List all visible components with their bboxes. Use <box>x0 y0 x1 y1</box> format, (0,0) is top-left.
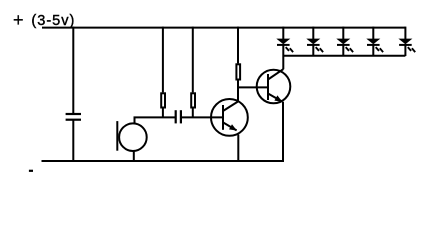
transistor Q1 collector stroke <box>223 102 238 111</box>
wire: C2 to Q1 base <box>181 116 223 118</box>
capacitor C1 top plate <box>66 113 81 115</box>
LED D5 triangle <box>398 39 412 45</box>
resistor R1 body <box>161 93 165 107</box>
LED D2 light arrows <box>316 47 319 51</box>
resistor R3 lead top <box>237 27 239 64</box>
LED D4 cathode bar <box>367 44 380 46</box>
LED D2 triangle <box>306 39 320 45</box>
LED D4 triangle <box>366 39 380 45</box>
microphone M1 body <box>119 123 147 151</box>
LED D4 cathode wire <box>372 45 374 56</box>
transistor Q1 base bar <box>222 105 224 130</box>
LED D5 cathode bar <box>399 44 412 46</box>
LED D3 anode wire <box>342 27 344 39</box>
LED D3 triangle <box>336 39 350 45</box>
LED D5 anode wire <box>404 27 406 39</box>
resistor R2 lead top <box>192 27 194 93</box>
LED D5 <box>398 27 415 56</box>
resistor R2 body <box>191 93 195 107</box>
LED D4 anode wire <box>372 27 374 39</box>
LED D4 <box>366 27 383 56</box>
resistor R3 body <box>236 64 240 79</box>
LED D1 anode wire <box>282 27 284 39</box>
LED D2 cathode bar <box>307 44 320 46</box>
capacitor C1 bottom plate <box>66 119 81 121</box>
wire: V+ rail down to C1 <box>72 27 74 114</box>
LED D5 light arrows <box>408 47 411 51</box>
transistor Q2 emitter arrow <box>274 95 282 101</box>
LED D3 cathode bar <box>337 44 350 46</box>
V+ rail (top wire) <box>42 27 405 29</box>
LED D3 light arrows <box>346 47 349 51</box>
transistor Q1 emitter arrow <box>229 124 237 130</box>
transistor Q1 body <box>211 99 248 136</box>
wire: Q1 emitter to negative rail <box>237 135 239 163</box>
capacitor C2 right plate <box>180 110 182 123</box>
resistor R1 lead bottom <box>162 109 164 118</box>
wire: R3 to Q1 collector node <box>237 80 239 102</box>
LED D2 anode wire <box>312 27 314 39</box>
LED D1 light arrows <box>286 47 289 51</box>
transistor Q2 base bar <box>267 74 269 100</box>
LED cathode bus <box>283 55 405 57</box>
negative rail (bottom wire) <box>42 160 284 162</box>
LED D1 <box>276 27 293 52</box>
LED D4 light arrows <box>376 47 379 51</box>
supply label - <box>29 170 33 172</box>
wire: node to Q2 base <box>237 86 269 88</box>
LED D1 triangle <box>276 39 290 45</box>
resistor R1 lead top <box>162 27 164 93</box>
wire: LED1 cathode to Q2 collector <box>282 45 284 69</box>
wire: Q2 emitter to negative rail <box>282 102 284 162</box>
LED D1 cathode bar <box>277 44 290 46</box>
transistor Q1 emitter stroke <box>223 122 237 130</box>
LED D3 cathode wire <box>342 45 344 56</box>
LED D5 cathode wire <box>404 45 406 56</box>
LED D2 <box>306 27 323 56</box>
wire: M1 to negative rail <box>133 151 135 161</box>
microphone M1 electret bar <box>116 121 118 151</box>
transistor Q2 emitter stroke <box>268 94 282 102</box>
LED D3 <box>336 27 353 56</box>
transistor Q2 body <box>257 70 291 104</box>
wire: M1 output to C2 <box>135 117 176 123</box>
transistor Q2 collector stroke <box>268 69 283 79</box>
supply label + (3-5v) <box>13 10 74 30</box>
resistor R2 lead bottom <box>192 109 194 118</box>
capacitor C2 left plate <box>175 110 177 123</box>
wire: C1 to negative rail <box>72 120 74 161</box>
svg-text:+: + <box>13 10 24 30</box>
LED D2 cathode wire <box>312 45 314 56</box>
